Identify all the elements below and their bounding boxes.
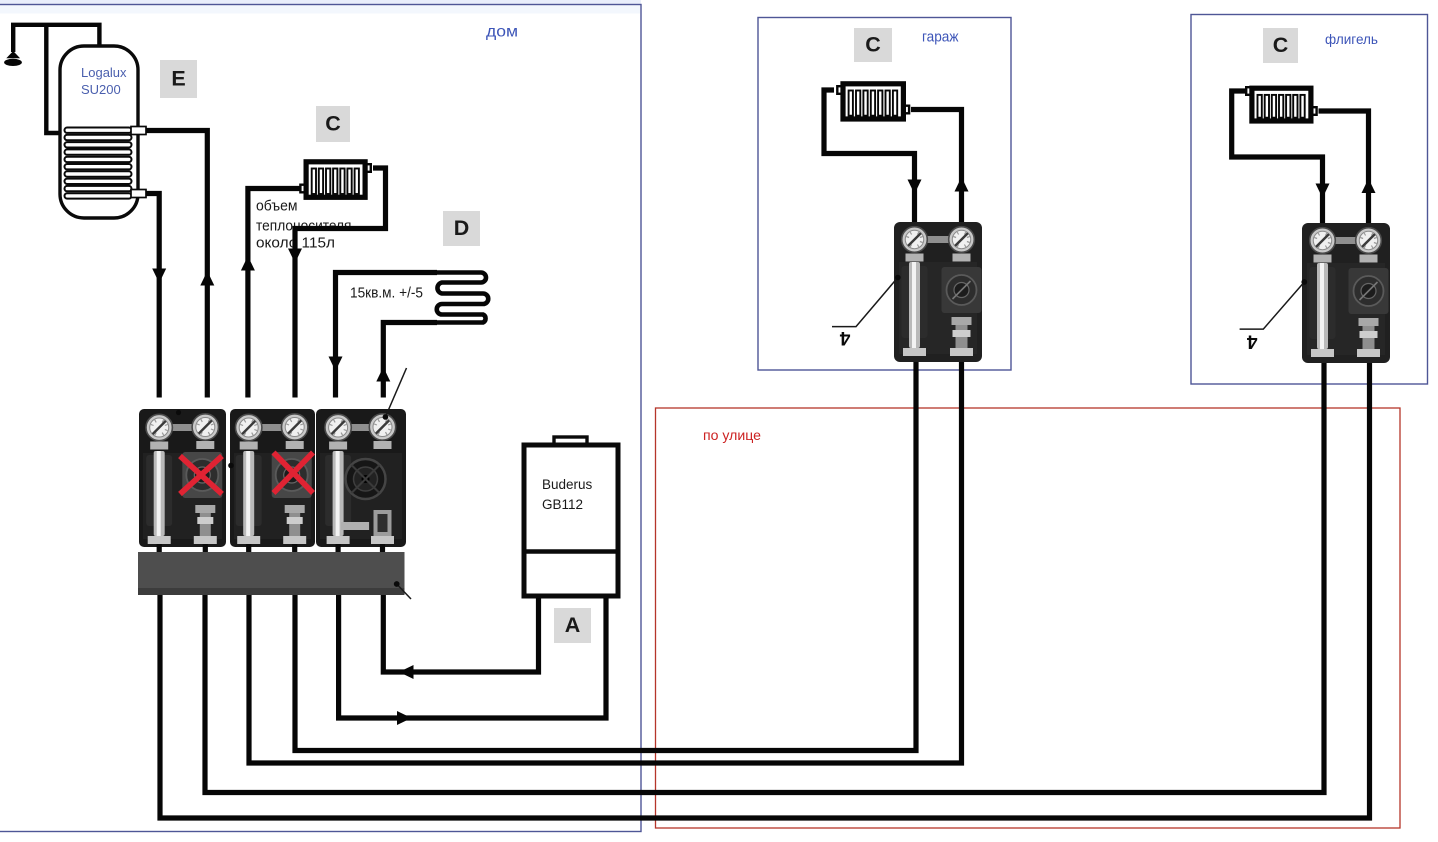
pipe: manifold 4 to garage left bbox=[295, 360, 916, 751]
garage pipe: radiator left to pump bbox=[824, 90, 915, 222]
svg-text:C: C bbox=[325, 111, 341, 135]
garage box bbox=[758, 18, 1011, 371]
radiator C (fligel) bbox=[1246, 87, 1251, 95]
pump station group 2 (radiator, crossed out) bbox=[230, 409, 315, 547]
svg-text:4: 4 bbox=[839, 327, 850, 348]
red X over pump group 2 bbox=[274, 453, 314, 494]
leader line: gauge 6 annotation bbox=[385, 368, 406, 417]
cold water inlet pipe (top-left) bbox=[13, 25, 99, 52]
street box (по улице) red bbox=[656, 408, 1401, 828]
leader line: manifold annotation bbox=[397, 584, 411, 599]
svg-text:Logalux: Logalux bbox=[81, 65, 127, 80]
radiator C (house) bbox=[300, 185, 305, 193]
svg-text:15кв.м. +/-5: 15кв.м. +/-5 bbox=[350, 286, 423, 302]
fligel annotation leader + 4 bbox=[1240, 282, 1305, 329]
pipe: manifold 6 to boiler left (return) bbox=[383, 595, 538, 672]
svg-text:по улице: по улице bbox=[703, 427, 761, 443]
fligel box bbox=[1191, 15, 1428, 385]
pipe: tank coil top to pump group 1 right bbox=[146, 131, 207, 398]
svg-text:A: A bbox=[565, 613, 581, 637]
fligel pipe: radiator left to pump bbox=[1232, 91, 1323, 223]
svg-text:C: C bbox=[1273, 33, 1289, 57]
coil top port bbox=[131, 127, 146, 135]
label C (garage radiator) bbox=[854, 28, 892, 62]
coil bottom port bbox=[131, 190, 146, 198]
tank heating coil bbox=[65, 128, 132, 133]
garage annotation leader + 4 bbox=[832, 278, 898, 327]
house top light strip bbox=[0, 0, 641, 4]
pump station group 1 (DHW, crossed out) bbox=[139, 409, 226, 547]
fligel pump station bbox=[1302, 223, 1390, 363]
pipe: floor heating return bbox=[383, 323, 437, 398]
boiler Buderus GB112 bbox=[554, 437, 587, 447]
house box (дом) bbox=[0, 5, 641, 832]
red X over pump group 1 bbox=[180, 456, 222, 494]
svg-text:4: 4 bbox=[1247, 331, 1258, 352]
label D (floor heating) bbox=[443, 211, 480, 246]
svg-text:GB112: GB112 bbox=[542, 497, 583, 512]
pipe: radiator C left to pump group 2 left bbox=[248, 189, 300, 398]
svg-text:гараж: гараж bbox=[922, 30, 959, 46]
pipe: manifold 1 to fligel right bbox=[160, 362, 1370, 818]
svg-text:D: D bbox=[454, 216, 470, 240]
fligel pipe: radiator right to pump bbox=[1319, 111, 1369, 223]
svg-text:дом: дом bbox=[486, 24, 518, 41]
manifold connection stubs bbox=[157, 544, 162, 554]
pipe: radiator C right to pump group 2 right bbox=[295, 168, 386, 398]
radiator C (garage) bbox=[837, 86, 842, 94]
pipe: tank coil bottom to pump group 1 left bbox=[146, 194, 159, 398]
tank Logalux SU200 body bbox=[60, 46, 138, 218]
label E bbox=[160, 60, 197, 98]
tank inlet pipe branch bbox=[46, 24, 62, 133]
pipe: manifold 3 to garage right bbox=[249, 360, 962, 763]
shower head bbox=[6, 51, 20, 58]
label C (fligel radiator) bbox=[1263, 28, 1298, 63]
svg-text:C: C bbox=[865, 33, 881, 57]
garage pump station bbox=[894, 222, 982, 362]
svg-text:E: E bbox=[171, 67, 185, 91]
pipe: floor heating supply bbox=[336, 273, 438, 398]
photo dot marks bbox=[176, 410, 181, 415]
floor heating coil (serpentine) bbox=[437, 273, 489, 323]
svg-text:объем: объем bbox=[256, 199, 298, 215]
pump station group 3 (floor heating, mixing) bbox=[316, 409, 406, 547]
svg-text:флигель: флигель bbox=[1325, 31, 1378, 47]
manifold bar bbox=[138, 552, 405, 595]
label A (boiler) bbox=[554, 608, 591, 643]
garage pipe: radiator right to pump bbox=[911, 110, 962, 223]
pipe: manifold 2 to fligel left bbox=[205, 362, 1324, 793]
svg-text:SU200: SU200 bbox=[81, 82, 121, 97]
label C (house radiator) bbox=[316, 106, 350, 142]
pipe: manifold 5 to boiler right (supply) bbox=[339, 595, 606, 718]
svg-text:Buderus: Buderus bbox=[542, 477, 593, 492]
